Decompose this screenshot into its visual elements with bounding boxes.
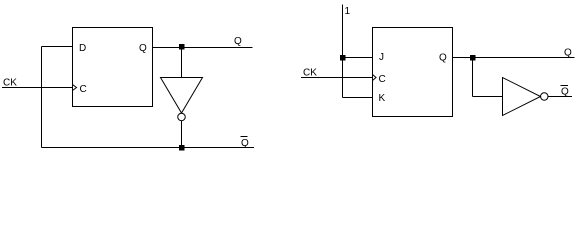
svg-text:C: C xyxy=(80,84,87,95)
clock triangle (JK C input) xyxy=(373,75,377,81)
node CK (left) xyxy=(3,78,17,89)
svg-text:Q: Q xyxy=(241,138,249,149)
svg-text:CK: CK xyxy=(3,78,17,89)
pin label C xyxy=(80,84,87,95)
wire CK to C input (left) xyxy=(2,87,73,89)
wire inverter output (right) xyxy=(548,96,572,98)
wire logic-1 vertical xyxy=(342,5,344,98)
svg-text:C: C xyxy=(379,74,386,85)
node CK (right) xyxy=(303,68,317,79)
JK flip-flop body xyxy=(373,28,453,117)
pin label C (JK) xyxy=(379,74,386,85)
wire Qbar rail (left) xyxy=(42,147,255,149)
svg-text:Q: Q xyxy=(234,36,242,47)
svg-text:Q: Q xyxy=(439,53,447,64)
pin label Q (JK output) xyxy=(439,53,447,64)
svg-text:Q: Q xyxy=(561,87,569,98)
wire D input horizontal xyxy=(42,46,73,48)
svg-text:D: D xyxy=(79,43,86,54)
inverter U3 triangle (pointing right) xyxy=(503,78,541,116)
wire junction to inverter input xyxy=(181,48,183,78)
wire to inverter input (right) xyxy=(473,96,503,98)
svg-text:1: 1 xyxy=(345,6,351,17)
node Qbar (left) xyxy=(241,137,250,150)
svg-text:CK: CK xyxy=(303,68,317,79)
node Q (left) xyxy=(234,36,242,47)
node Qbar (right) xyxy=(561,86,570,98)
wire J input xyxy=(343,57,373,59)
junction on Q wire (right) xyxy=(470,55,476,61)
inverter U2 bubble xyxy=(178,113,186,121)
pin label K xyxy=(379,93,386,104)
wire inverter output down xyxy=(181,121,183,148)
junction on J wire xyxy=(340,55,346,61)
wire Q output (right) xyxy=(453,57,575,59)
wire K input xyxy=(343,97,373,99)
node logic 1 xyxy=(345,6,351,17)
junction on Q wire (left) xyxy=(179,44,185,50)
D flip-flop body xyxy=(73,28,153,107)
node Q (right) xyxy=(564,48,572,59)
svg-text:Q: Q xyxy=(139,43,147,54)
wire Q output (left) xyxy=(153,47,253,49)
svg-text:K: K xyxy=(379,93,386,104)
pin label Q (D flip-flop output) xyxy=(139,43,147,54)
junction on Qbar rail (left) xyxy=(179,145,185,151)
wire junction down to inverter (right) xyxy=(472,58,474,97)
wire feedback vertical (Qbar to D) xyxy=(41,47,43,148)
wire CK to C input (right) xyxy=(301,77,373,79)
svg-text:Q: Q xyxy=(564,48,572,59)
clock triangle (D flip-flop C input) xyxy=(73,85,77,91)
svg-text:J: J xyxy=(379,52,384,63)
inverter U3 bubble xyxy=(541,93,549,101)
pin label J xyxy=(379,52,384,63)
inverter U2 triangle (pointing down) xyxy=(161,78,203,114)
pin label D xyxy=(79,43,86,54)
